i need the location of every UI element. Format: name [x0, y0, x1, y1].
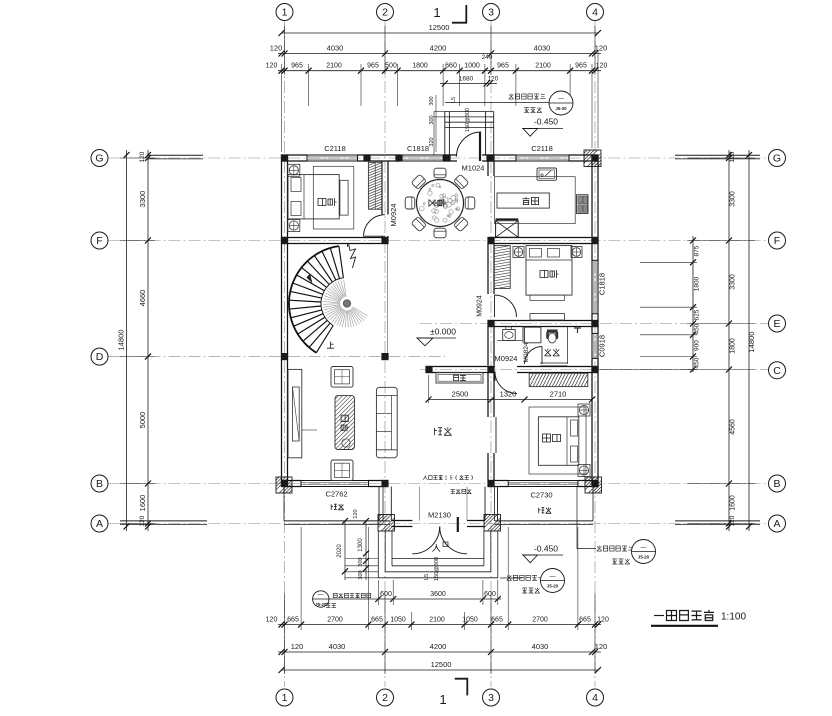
svg-text:M0924: M0924 — [495, 354, 518, 363]
svg-text:M0924: M0924 — [389, 204, 398, 227]
svg-text:-0.450: -0.450 — [534, 544, 558, 554]
svg-text:120: 120 — [266, 617, 278, 624]
svg-text:1: 1 — [444, 475, 447, 481]
svg-text:1050: 1050 — [390, 617, 406, 624]
svg-text:4: 4 — [592, 7, 598, 19]
svg-text:F: F — [774, 235, 780, 247]
svg-text:B: B — [773, 478, 780, 490]
svg-text:C2762: C2762 — [325, 490, 347, 499]
svg-text:C2118: C2118 — [531, 144, 553, 153]
svg-text:M0824: M0824 — [523, 342, 530, 362]
svg-text:300: 300 — [358, 557, 364, 566]
svg-text:C1818: C1818 — [407, 144, 429, 153]
svg-text:4: 4 — [592, 692, 598, 704]
svg-text:660: 660 — [445, 63, 457, 70]
svg-text:1600: 1600 — [138, 495, 147, 512]
svg-text:4200: 4200 — [430, 44, 447, 53]
svg-text:E: E — [773, 318, 780, 330]
svg-text:—: — — [550, 574, 556, 580]
svg-text:J5-20: J5-20 — [315, 602, 327, 607]
svg-text:900: 900 — [694, 340, 701, 351]
svg-text:1: 1 — [282, 7, 288, 19]
svg-text:3: 3 — [488, 7, 494, 19]
svg-text:2700: 2700 — [532, 617, 548, 624]
svg-text:G: G — [95, 153, 103, 165]
svg-text:—: — — [641, 545, 647, 551]
svg-text:120: 120 — [291, 642, 304, 651]
svg-text:1680: 1680 — [459, 76, 474, 83]
svg-text:120: 120 — [270, 44, 283, 53]
svg-text:665: 665 — [287, 617, 299, 624]
svg-text:J5-20: J5-20 — [638, 555, 650, 560]
svg-text:1600: 1600 — [730, 495, 737, 511]
svg-text:300: 300 — [429, 115, 435, 124]
svg-text:C2118: C2118 — [324, 144, 346, 153]
svg-text:12500: 12500 — [429, 23, 450, 32]
svg-text:665: 665 — [371, 617, 383, 624]
svg-text:4030: 4030 — [329, 642, 346, 651]
svg-text:450: 450 — [694, 323, 701, 334]
svg-text:J5-20: J5-20 — [547, 584, 559, 589]
svg-text:665: 665 — [579, 617, 591, 624]
svg-text:1: 1 — [282, 692, 288, 704]
svg-text:2100: 2100 — [326, 63, 342, 70]
svg-text:1800: 1800 — [412, 63, 428, 70]
svg-text:3600: 3600 — [430, 591, 446, 598]
svg-text:2020: 2020 — [337, 544, 343, 558]
svg-text:120: 120 — [729, 151, 736, 162]
svg-text:3: 3 — [488, 692, 494, 704]
svg-text:G: G — [773, 153, 781, 165]
svg-text:±0.000: ±0.000 — [430, 327, 456, 337]
svg-text:D: D — [96, 351, 104, 363]
svg-text:1: 1 — [433, 5, 440, 20]
svg-text:120: 120 — [266, 63, 278, 70]
svg-text:965: 965 — [291, 63, 303, 70]
svg-text:120: 120 — [488, 76, 499, 83]
svg-text:1000: 1000 — [464, 63, 480, 70]
svg-text:L5: L5 — [451, 97, 457, 103]
svg-text:1320: 1320 — [500, 390, 517, 399]
svg-text:—: — — [318, 593, 324, 599]
svg-text:120: 120 — [353, 509, 359, 518]
svg-text:300: 300 — [358, 570, 364, 579]
svg-text:C2730: C2730 — [530, 491, 552, 500]
svg-text:875: 875 — [694, 245, 701, 256]
svg-text:3300: 3300 — [730, 274, 737, 290]
svg-text:5: 5 — [450, 475, 453, 481]
svg-text:240: 240 — [482, 54, 493, 61]
svg-text:4560: 4560 — [730, 419, 737, 435]
svg-text:2100: 2100 — [535, 63, 551, 70]
svg-text:600: 600 — [380, 591, 392, 598]
svg-text:965: 965 — [575, 63, 587, 70]
svg-text:500: 500 — [385, 63, 397, 70]
svg-text:4030: 4030 — [327, 44, 344, 53]
svg-text:J5-20: J5-20 — [555, 106, 567, 111]
svg-text:C: C — [773, 365, 781, 377]
svg-text:3300: 3300 — [730, 191, 737, 207]
svg-text:—: — — [558, 97, 564, 103]
svg-text:1800: 1800 — [694, 276, 701, 291]
svg-text:1300: 1300 — [358, 538, 364, 552]
svg-text:600: 600 — [484, 591, 496, 598]
svg-text:120: 120 — [139, 151, 146, 162]
svg-text:12500: 12500 — [431, 660, 452, 669]
svg-text:1: 1 — [439, 692, 446, 707]
svg-text:2: 2 — [382, 7, 388, 19]
svg-text:14800: 14800 — [747, 332, 756, 353]
svg-text:C0918: C0918 — [598, 335, 607, 357]
svg-text:120: 120 — [595, 44, 608, 53]
svg-text:4030: 4030 — [532, 642, 549, 651]
svg-text:C1818: C1818 — [598, 273, 607, 295]
svg-text:B: B — [96, 478, 103, 490]
svg-text:2500: 2500 — [452, 390, 469, 399]
svg-text:625: 625 — [694, 309, 701, 320]
svg-text:150@300: 150@300 — [465, 108, 471, 132]
svg-text:150@300: 150@300 — [434, 557, 440, 581]
svg-text:120: 120 — [596, 63, 608, 70]
svg-text:1:100: 1:100 — [721, 612, 746, 623]
svg-text:M2130: M2130 — [428, 511, 451, 520]
svg-text:2700: 2700 — [327, 617, 343, 624]
svg-text:14800: 14800 — [117, 330, 126, 351]
svg-text:L5: L5 — [424, 574, 430, 580]
svg-text:300: 300 — [429, 96, 435, 105]
svg-text:A: A — [773, 518, 780, 530]
svg-text:120: 120 — [597, 617, 609, 624]
svg-text:3300: 3300 — [138, 191, 147, 208]
svg-text:2: 2 — [382, 692, 388, 704]
svg-text:965: 965 — [497, 63, 509, 70]
svg-text:A: A — [96, 518, 103, 530]
svg-text:665: 665 — [491, 617, 503, 624]
svg-text:4200: 4200 — [430, 642, 447, 651]
svg-text:320: 320 — [429, 137, 435, 146]
svg-text:-0.450: -0.450 — [534, 117, 558, 127]
svg-text:2710: 2710 — [550, 390, 567, 399]
svg-text:965: 965 — [367, 63, 379, 70]
svg-text:450: 450 — [694, 357, 701, 368]
svg-text:2100: 2100 — [429, 617, 445, 624]
svg-text:5000: 5000 — [138, 412, 147, 429]
svg-text:1800: 1800 — [730, 338, 737, 354]
svg-text:M0924: M0924 — [477, 295, 484, 317]
svg-text:F: F — [96, 235, 102, 247]
svg-text:M1024: M1024 — [462, 164, 485, 173]
svg-text:4660: 4660 — [138, 290, 147, 307]
svg-text:4030: 4030 — [534, 44, 551, 53]
svg-text:120: 120 — [595, 642, 608, 651]
